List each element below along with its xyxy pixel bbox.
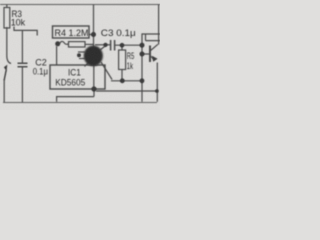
resistor R5 body (119, 50, 126, 70)
node dot right bus base (140, 52, 145, 57)
node dot R4 left (55, 41, 60, 46)
node dot emitter meets bottom bus (155, 89, 159, 93)
node dot right bus lower (140, 78, 145, 83)
wire blob lower-left tick to IC edge (85, 62, 90, 67)
wire blob left stub upper (78, 51, 85, 53)
wire R5 bottom lead (121, 70, 123, 81)
wire VT collector (151, 44, 158, 50)
node dot right bus upper (140, 43, 145, 48)
arrowhead VT emitter (152, 56, 158, 62)
wire switch segment with end ticks (14, 27, 37, 36)
wire IC bottom pin down (93, 89, 95, 97)
capacitor C3 (111, 40, 115, 51)
wire R4 right lead (85, 43, 94, 45)
wire R5 top lead (121, 45, 123, 50)
wire blob left stub lower (79, 58, 85, 60)
node dot C3/R5 junction (120, 43, 125, 48)
wire top-right link y34 (142, 33, 160, 35)
wire VT emitter diagonal (151, 56, 154, 59)
resistor R3 (4, 8, 10, 29)
wire right vertical bus x142 (141, 33, 143, 101)
transistor VT base bar (149, 46, 151, 63)
wire blob lower-right diagonal (101, 62, 112, 80)
resistor R4 body (69, 42, 86, 47)
wire center vertical from top rail to transistor blob (93, 5, 95, 48)
wire stub from R4 box to center node (89, 34, 94, 36)
node dot R5 bottom (120, 78, 125, 83)
wire VT emitter vertical to bottom bus (156, 63, 158, 102)
node dot blob right (103, 43, 107, 47)
wire R3 bottom lead curving right (7, 27, 11, 64)
node dot blob left (77, 53, 81, 57)
IC1 box outline (50, 65, 105, 89)
wire horizontal y81 bus (111, 80, 142, 82)
capacitor C2 (18, 63, 28, 67)
wire blob upper-right diagonal to C3 wire (100, 45, 107, 50)
wire C2 bottom lead (21, 67, 23, 102)
wire C3 left lead (95, 44, 110, 46)
wire right edge vertical (158, 5, 160, 45)
scan noise overlay (0, 0, 160, 110)
transistor blob body (84, 46, 103, 67)
wire pin lead from node to IC top (56, 46, 58, 65)
wire VT base lead (142, 53, 150, 55)
wire second top-right link y40.6 (146, 34, 161, 41)
wire node dot to R4 left lead (s-curve) (60, 41, 69, 44)
wire bottom ground rail (3, 102, 157, 104)
wire left arrow lead to ground (3, 80, 5, 103)
wire R3 top lead (6, 5, 8, 9)
wire C3 right lead to right bus (115, 44, 142, 46)
wire top supply rail (0, 4, 160, 6)
wire bottom bus to right (96, 90, 157, 92)
node dot IC bottom pin (91, 86, 96, 91)
wire blob lead through IC box to bottom pin (93, 65, 95, 90)
label box around R4 value (53, 26, 90, 38)
wire bottom staple to ground (57, 97, 94, 102)
arrowhead left pointing up (4, 70, 6, 80)
node dot center vertical (91, 32, 96, 37)
wire C2 top lead (21, 30, 23, 62)
